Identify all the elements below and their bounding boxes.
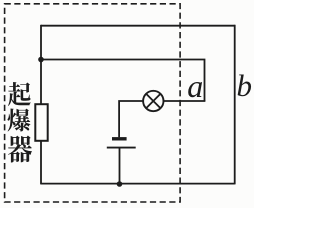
svg-text:b: b	[237, 68, 253, 103]
node: junction dot bottom	[117, 181, 123, 187]
wire: bottom horizontal	[41, 183, 235, 185]
wire: battery to bottom	[119, 148, 121, 184]
wire: lamp left lead down to battery	[119, 101, 143, 137]
label Chinese QI4 (detonator char 3)	[8, 135, 32, 162]
wire: left vertical upper	[40, 25, 42, 105]
svg-text:a: a	[187, 68, 203, 104]
wire: right vertical (b branch)	[234, 25, 236, 185]
wire: left vertical lower	[40, 141, 42, 185]
wire: lamp right lead	[164, 100, 206, 102]
label Chinese BAO (detonator char 2)	[8, 109, 31, 132]
battery cell: short thick negative plate	[112, 137, 127, 140]
node: junction dot upper left	[38, 57, 44, 63]
label Chinese QI3 (detonator char 1)	[8, 82, 31, 106]
wire: inner branch horizontal + a vertical	[41, 60, 205, 102]
wire: top horizontal	[41, 25, 235, 27]
dashed boundary box of detonator	[5, 4, 181, 202]
lamp L1: circle with X	[143, 91, 163, 111]
resistor (detonator bridge) rectangle	[35, 104, 47, 141]
battery cell: long thin positive plate	[107, 147, 136, 149]
